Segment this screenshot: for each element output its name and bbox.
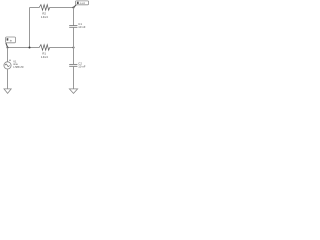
flag in: port icon bbox=[7, 38, 9, 40]
voltage source V1 bbox=[4, 62, 11, 69]
svg-text:sine: sine bbox=[13, 63, 18, 66]
flag out: tail bbox=[74, 5, 76, 8]
V1 sine mark bbox=[5, 64, 9, 67]
wire top from left corner to R2 bbox=[30, 7, 40, 9]
resistor R2 bbox=[39, 5, 49, 11]
capacitor C2 bbox=[69, 64, 77, 66]
flag out: port icon bbox=[77, 2, 79, 4]
wire right vertical top segment bbox=[73, 8, 75, 26]
node junction left (29,47) bbox=[29, 47, 31, 49]
wire from source down to ground left bbox=[7, 69, 9, 89]
svg-text:14k3: 14k3 bbox=[41, 15, 48, 19]
wire middle from R1 to right junction bbox=[50, 47, 74, 49]
capacitor C1 bbox=[69, 26, 77, 28]
svg-text:1.585 kHz: 1.585 kHz bbox=[13, 67, 24, 69]
svg-text:14k3: 14k3 bbox=[41, 55, 48, 59]
flag in: box bbox=[6, 37, 16, 43]
V1 plus mark bbox=[9, 59, 11, 61]
wire right vertical mid segment bbox=[73, 27, 75, 64]
flag out: box bbox=[75, 1, 88, 5]
wire left vertical bbox=[29, 8, 31, 48]
ground left bbox=[4, 89, 11, 94]
wire middle from in corner to R1 bbox=[8, 47, 40, 49]
node out corner dot bbox=[72, 6, 74, 8]
ground right bbox=[69, 89, 77, 94]
wire top from R2 to out node bbox=[50, 7, 74, 9]
svg-text:in: in bbox=[10, 39, 13, 43]
node in corner dot bbox=[7, 47, 9, 49]
svg-text:out: out bbox=[80, 1, 85, 5]
svg-text:10 nF: 10 nF bbox=[78, 25, 85, 29]
resistor R1 bbox=[39, 45, 49, 51]
wire from in node down to source bbox=[7, 48, 9, 62]
svg-text:10 nF: 10 nF bbox=[78, 64, 85, 68]
flag in: tail bbox=[6, 43, 8, 47]
wire right vertical bottom segment bbox=[73, 66, 75, 89]
node junction right (73,47) bbox=[73, 47, 75, 49]
